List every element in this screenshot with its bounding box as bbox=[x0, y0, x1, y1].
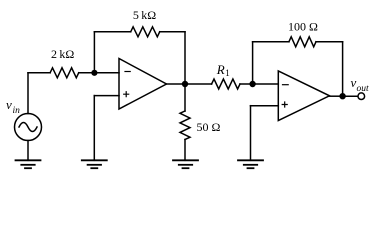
label v_out bbox=[351, 75, 370, 94]
wire feedback right segment bbox=[160, 31, 185, 33]
wire op-amp U1 plus down to ground bbox=[93, 96, 95, 161]
resistor 50 ohm vertical zigzag bbox=[180, 111, 190, 140]
svg-text:in: in bbox=[13, 106, 21, 116]
wire node D to output terminal bbox=[343, 95, 358, 97]
wire from source top up bbox=[27, 73, 29, 114]
op-amp U2 triangle bbox=[278, 71, 329, 121]
source v_in (AC) bbox=[15, 114, 42, 141]
wire feedback down to node B bbox=[184, 32, 186, 84]
wire node C up to 100 ohm feedback bbox=[252, 42, 254, 84]
svg-text:R: R bbox=[216, 62, 225, 77]
resistor R1 zigzag bbox=[212, 79, 240, 89]
wire op-amp U2 plus down to ground bbox=[250, 106, 252, 161]
resistor 2k zigzag bbox=[50, 68, 79, 78]
op-amp U2 plus sign bbox=[282, 102, 287, 107]
wire op-amp U1 plus input left bbox=[94, 95, 119, 97]
svg-text:5 kΩ: 5 kΩ bbox=[133, 8, 156, 22]
op-amp U1 plus sign bbox=[124, 92, 129, 97]
ground under op-amp U2 plus bbox=[238, 160, 263, 168]
wire to 2k resistor bbox=[28, 72, 50, 74]
node A junction dot bbox=[91, 70, 97, 76]
op-amp U1 minus sign bbox=[125, 71, 130, 73]
label v_in bbox=[6, 97, 20, 116]
svg-text:1: 1 bbox=[225, 68, 230, 78]
ground under 50 ohm bbox=[173, 160, 198, 168]
op-amp U2 minus sign bbox=[283, 84, 289, 86]
node B junction dot bbox=[182, 81, 188, 87]
wire op-amp U1 output to node B bbox=[167, 83, 186, 85]
svg-text:v: v bbox=[6, 97, 12, 112]
wire 50 ohm to ground bbox=[184, 140, 186, 161]
ground under source bbox=[16, 160, 41, 168]
svg-text:50 Ω: 50 Ω bbox=[197, 120, 221, 134]
wire feedback down to node D bbox=[342, 42, 344, 96]
wire feedback left segment bbox=[94, 31, 130, 33]
label R1 bbox=[216, 62, 230, 78]
svg-text:100 Ω: 100 Ω bbox=[288, 19, 318, 33]
wire 100 ohm feedback left segment bbox=[253, 41, 289, 43]
resistor 5k zigzag bbox=[131, 27, 160, 37]
node C junction dot bbox=[249, 81, 255, 87]
wire R1 to op-amp U2 minus input bbox=[240, 83, 278, 85]
resistor 100 ohm zigzag bbox=[289, 37, 316, 47]
node D junction dot bbox=[339, 93, 345, 99]
wire source bottom down bbox=[27, 141, 29, 161]
svg-text:out: out bbox=[357, 84, 370, 94]
op-amp U1 triangle bbox=[119, 59, 167, 110]
wire op-amp U2 plus input left bbox=[251, 105, 279, 107]
output terminal circle bbox=[358, 93, 365, 100]
wire node B down to 50 ohm bbox=[184, 84, 186, 111]
svg-text:2 kΩ: 2 kΩ bbox=[51, 47, 74, 61]
wire op-amp U2 output to node D bbox=[330, 95, 343, 97]
ground under op-amp U1 plus bbox=[82, 160, 107, 168]
wire node A up to feedback bbox=[93, 32, 95, 73]
wire 100 ohm feedback right segment bbox=[316, 41, 343, 43]
wire 2k to op-amp minus input bbox=[79, 72, 119, 74]
wire node B to R1 bbox=[185, 83, 212, 85]
